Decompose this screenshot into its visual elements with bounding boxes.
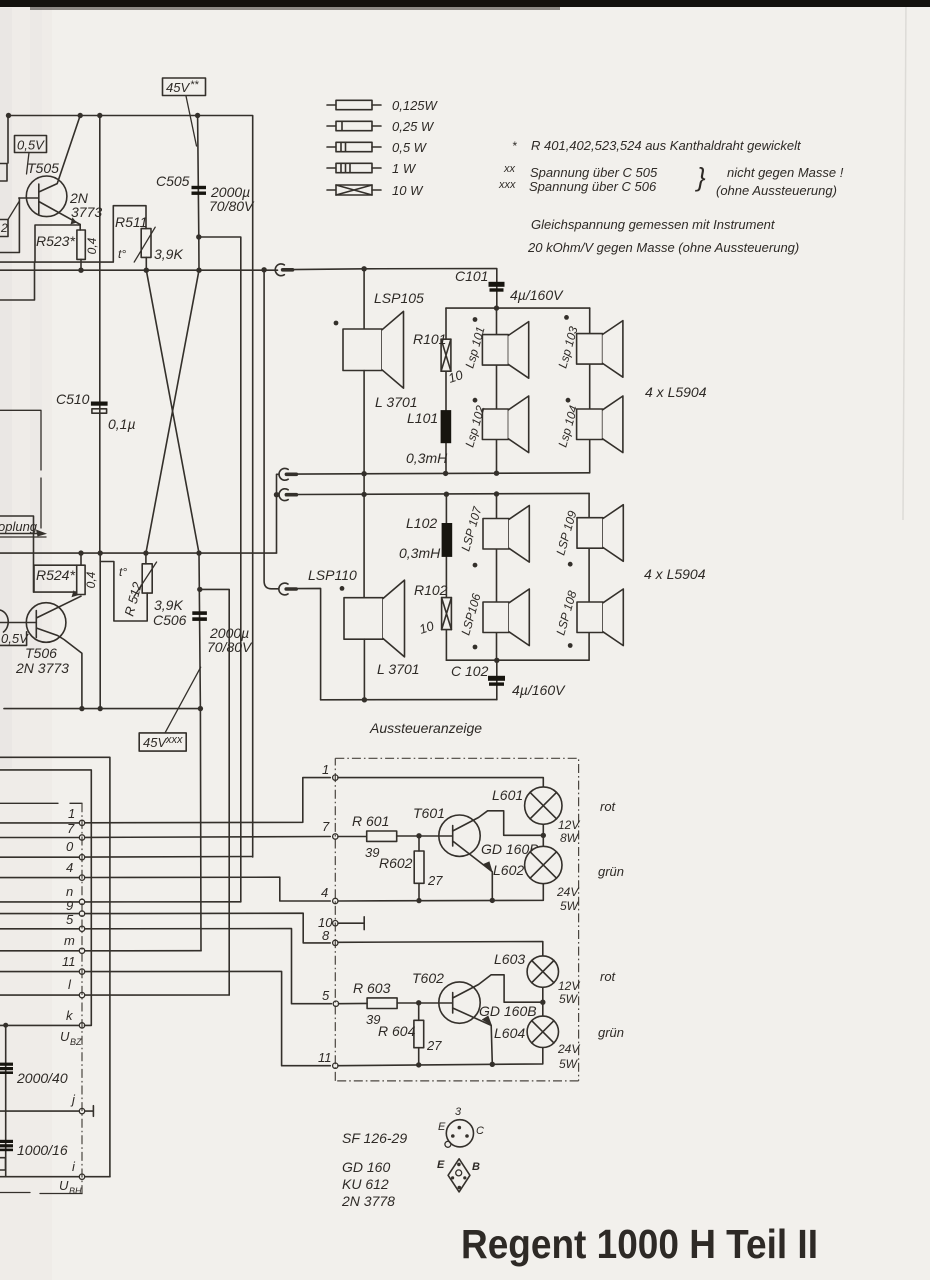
svg-text:2000/40: 2000/40 bbox=[16, 1070, 68, 1086]
svg-text:KU 612: KU 612 bbox=[342, 1176, 389, 1192]
svg-text:GD 160B: GD 160B bbox=[479, 1003, 537, 1019]
legend resistor 0,125W bbox=[327, 100, 381, 109]
svg-text:70/80V: 70/80V bbox=[209, 198, 255, 214]
node on top bus x=100 bbox=[97, 113, 102, 118]
node on top bus x=80 bbox=[78, 113, 83, 118]
node base/R604 bbox=[416, 1000, 421, 1005]
svg-text:R 604: R 604 bbox=[378, 1023, 416, 1039]
svg-text:LSP105: LSP105 bbox=[374, 290, 424, 306]
wire group1 center column x=496.5 bbox=[496, 308, 498, 473]
resistor R604 27 bbox=[418, 1003, 420, 1021]
row 4 bbox=[0, 877, 79, 879]
svg-text:0,5 W: 0,5 W bbox=[392, 140, 428, 155]
row i bbox=[0, 1176, 79, 1178]
leader 45V*** to C506 wire bbox=[165, 667, 201, 733]
resistor R523 0,4 bbox=[77, 230, 85, 259]
node rail2/LSP110 column bbox=[361, 492, 366, 497]
wire bottom rail unit1 bbox=[338, 884, 543, 901]
terminal 1 bbox=[333, 775, 338, 780]
svg-text:4µ/160V: 4µ/160V bbox=[510, 287, 564, 303]
svg-text:SF 126-29: SF 126-29 bbox=[342, 1130, 407, 1146]
svg-text:Spannung über C 506: Spannung über C 506 bbox=[529, 179, 657, 194]
row 1 bbox=[0, 822, 79, 824]
svg-text:2N 3773: 2N 3773 bbox=[15, 660, 69, 676]
node bracket/hook2 bbox=[274, 492, 279, 497]
terminal 7 bbox=[333, 834, 338, 839]
svg-text:0,5V: 0,5V bbox=[17, 138, 45, 153]
resistor R601 39 bbox=[367, 831, 397, 841]
node bus553/x100 column bbox=[98, 550, 103, 555]
speaker LSP107 bbox=[483, 506, 529, 563]
svg-text:R523*: R523* bbox=[36, 233, 75, 249]
svg-text:1000/16: 1000/16 bbox=[17, 1142, 68, 1158]
svg-text:xxx: xxx bbox=[498, 179, 516, 191]
speaker Lsp102 bbox=[482, 396, 528, 453]
svg-text:12V: 12V bbox=[558, 818, 580, 832]
lamp L604 gruen 24V 5W bbox=[542, 987, 544, 1016]
node between lamps bbox=[541, 833, 546, 838]
svg-text:xx: xx bbox=[503, 163, 516, 175]
wire group2 center column x=496.7 bbox=[496, 494, 498, 660]
svg-text:rot: rot bbox=[600, 799, 617, 814]
svg-text:3,9K: 3,9K bbox=[154, 597, 183, 613]
transistor T506 (2N 3773) bbox=[26, 603, 66, 643]
svg-text:BZ: BZ bbox=[70, 1037, 82, 1047]
node C506/row-l branch bbox=[197, 587, 202, 592]
svg-text:1 W: 1 W bbox=[392, 161, 417, 176]
svg-text:4: 4 bbox=[66, 860, 73, 875]
svg-text:L602: L602 bbox=[493, 862, 524, 878]
svg-text:7: 7 bbox=[67, 821, 75, 836]
svg-text:24V: 24V bbox=[556, 885, 579, 899]
svg-text:T506: T506 bbox=[25, 645, 57, 661]
node rail1/LSP105 bbox=[361, 471, 366, 476]
wire stub down from left end of top bus bbox=[7, 116, 9, 164]
svg-text:C506: C506 bbox=[153, 612, 187, 628]
node base/R602 bbox=[416, 833, 421, 838]
svg-text:2N 3778: 2N 3778 bbox=[341, 1193, 395, 1209]
svg-text:R 603: R 603 bbox=[353, 980, 391, 996]
svg-text:grün: grün bbox=[598, 1025, 624, 1040]
svg-text:R511: R511 bbox=[115, 214, 147, 230]
row j with end bar bbox=[0, 1110, 79, 1112]
speaker LSP110 (L3701) bbox=[344, 580, 405, 657]
wire branch from C505 node to x=240.5, corner down to connector row n bbox=[199, 237, 241, 902]
wire C505 column x=199 from top bus to bus270 bbox=[198, 116, 199, 271]
capacitor 1000/16 bbox=[0, 1140, 13, 1143]
lamp L601 rot 12V 5W bbox=[525, 787, 562, 824]
wire top supply bus y=115.5 with corner down at x=252.7 (runs to connector row 0) bbox=[8, 116, 253, 858]
speaker LSP106 bbox=[483, 589, 529, 646]
svg-text:Gleichspannung gemessen mit In: Gleichspannung gemessen mit Instrument bbox=[531, 217, 776, 232]
connector hook rail1 return bbox=[279, 468, 296, 480]
svg-text:B: B bbox=[472, 1161, 480, 1173]
svg-text:39: 39 bbox=[365, 845, 379, 860]
terminal 4 bbox=[333, 898, 338, 903]
svg-text:24V: 24V bbox=[557, 1042, 580, 1056]
svg-text:3: 3 bbox=[455, 1106, 462, 1118]
node bus553/R512 bbox=[143, 550, 148, 555]
svg-text:45V: 45V bbox=[166, 80, 190, 95]
svg-text:L 3701: L 3701 bbox=[377, 661, 420, 677]
svg-text:Spannung über C 505: Spannung über C 505 bbox=[530, 165, 658, 180]
svg-text:LSP110: LSP110 bbox=[308, 567, 357, 583]
svg-text:70/80V: 70/80V bbox=[207, 639, 253, 655]
wire group2 right column x=589.1 bbox=[588, 493, 590, 659]
node bus708/x100 bbox=[98, 706, 103, 711]
node rail2/L102 bbox=[444, 492, 449, 497]
wire diagonal R511-bottom to C506-top bbox=[146, 270, 199, 553]
svg-text:0,125W: 0,125W bbox=[392, 98, 439, 113]
svg-text:t°: t° bbox=[118, 247, 126, 261]
node rail2/emitter bbox=[490, 1062, 495, 1067]
svg-text:oplung: oplung bbox=[0, 519, 38, 534]
wire LSP105 bottom to rail1-bottom and on to LSP110 bbox=[363, 371, 365, 598]
capacitor C506 2000u 70/80V bbox=[199, 553, 200, 709]
svg-text:L101: L101 bbox=[407, 410, 438, 426]
svg-text:C505: C505 bbox=[156, 173, 190, 189]
rheostat R511 3,9K bbox=[141, 229, 151, 258]
svg-text:4µ/160V: 4µ/160V bbox=[512, 682, 566, 698]
svg-text:20 kOhm/V gegen Masse (ohne Au: 20 kOhm/V gegen Masse (ohne Aussteuerung… bbox=[527, 240, 799, 255]
svg-text:4 x L5904: 4 x L5904 bbox=[645, 384, 707, 400]
svg-text:L604: L604 bbox=[494, 1025, 525, 1041]
wire kopplung box bbox=[0, 516, 34, 592]
svg-text:3,9K: 3,9K bbox=[154, 246, 183, 262]
node C101/rail1 bbox=[494, 305, 499, 310]
svg-text:E: E bbox=[438, 1121, 446, 1133]
svg-text:U: U bbox=[59, 1178, 69, 1193]
legend resistor 0,5W bbox=[327, 142, 381, 151]
resistor R602 27 bbox=[418, 836, 420, 851]
row 9 bbox=[0, 913, 79, 915]
wire horizontal line1 y=262.1 from edge, corner up into R511 bracket bbox=[0, 206, 146, 262]
wire R524 label loop bbox=[34, 565, 77, 592]
top black page-edge bar bbox=[0, 0, 930, 7]
partial transistor at left edge bbox=[0, 610, 8, 632]
svg-text:27: 27 bbox=[427, 873, 443, 888]
resistor R603 39 bbox=[367, 998, 397, 1009]
pinout small-case transistor (SF126) bbox=[446, 1120, 473, 1147]
partial connector box at left page edge bbox=[0, 164, 7, 182]
dash-dot boundary of Aussteueranzeige unit bbox=[335, 758, 578, 1081]
node between lamps unit2 bbox=[540, 1000, 545, 1005]
svg-text:rot: rot bbox=[600, 969, 617, 984]
node rail/R602 bbox=[416, 898, 421, 903]
polarity dot Lsp103 bbox=[564, 315, 569, 320]
node bus553/C506 bbox=[196, 550, 201, 555]
svg-text:45V: 45V bbox=[143, 735, 167, 750]
svg-text:Regent 1000 H Teil II: Regent 1000 H Teil II bbox=[461, 1221, 818, 1267]
wire branch from C506 column to x=229.2 corner down to row l bbox=[200, 589, 229, 995]
svg-text:5W: 5W bbox=[559, 992, 579, 1006]
svg-text:3773: 3773 bbox=[71, 204, 102, 220]
wire group1 right column x=589.7 bbox=[589, 308, 591, 473]
terminal 8 bbox=[333, 940, 338, 945]
svg-text:R101: R101 bbox=[413, 331, 446, 347]
svg-text:C: C bbox=[476, 1125, 484, 1137]
svg-text:R524*: R524* bbox=[36, 567, 75, 583]
svg-text:E: E bbox=[437, 1159, 445, 1171]
svg-text:L603: L603 bbox=[494, 951, 525, 967]
wire group1 left column x=446 bbox=[445, 308, 447, 473]
svg-text:T505: T505 bbox=[27, 160, 59, 176]
svg-text:BH: BH bbox=[69, 1186, 82, 1196]
row 0 bbox=[0, 856, 79, 858]
label box 45V** bbox=[163, 78, 206, 96]
wire bus y=700 to C102 bottom bbox=[321, 699, 497, 701]
svg-text:10 W: 10 W bbox=[392, 183, 424, 198]
svg-text:0,5V: 0,5V bbox=[1, 631, 29, 646]
wire group1 bottom rail y=473 bbox=[297, 473, 590, 474]
leader 45V** to C505 wire bbox=[186, 96, 197, 146]
node C505/bus bbox=[196, 268, 201, 273]
svg-text:5: 5 bbox=[66, 912, 74, 927]
wire group2 left column x=446.6 bbox=[445, 494, 447, 660]
svg-text:8W: 8W bbox=[560, 831, 580, 845]
wire bus y=553 from left edge to hook bracket bbox=[0, 552, 277, 554]
svg-text:0,1µ: 0,1µ bbox=[108, 416, 136, 432]
capacitor C510 0,1u bbox=[91, 402, 108, 406]
svg-text:L102: L102 bbox=[406, 515, 437, 531]
svg-text:nicht gegen Masse !: nicht gegen Masse ! bbox=[727, 165, 844, 180]
wire x=264 from bus270 down, curving into LSP110 hook bbox=[264, 270, 278, 589]
row 5 bbox=[0, 928, 79, 930]
svg-text:0,3mH: 0,3mH bbox=[406, 450, 448, 466]
polarity dot LSP109 bbox=[568, 562, 573, 567]
thermistor R512 3,9K bbox=[145, 553, 147, 564]
wire R512 bottom bracket bbox=[100, 562, 147, 622]
polarity dot LSP110 bbox=[340, 586, 345, 591]
svg-text:L 3701: L 3701 bbox=[375, 394, 418, 410]
svg-text:R 401,402,523,524 aus Kanthal: R 401,402,523,524 aus Kanthaldraht gewic… bbox=[531, 138, 802, 153]
wire group1 top rail y=308.1 bbox=[446, 307, 590, 309]
wire terminal1 to L601 top bbox=[338, 778, 543, 787]
node bus270/x264 branch bbox=[261, 267, 266, 272]
wire C510 column x=99.8 from top bus to bus 553 bbox=[99, 116, 101, 554]
row 7 bbox=[0, 837, 79, 839]
row l bbox=[0, 994, 79, 996]
svg-text:m: m bbox=[64, 933, 75, 948]
svg-text:12V: 12V bbox=[558, 979, 580, 993]
svg-text:5W: 5W bbox=[559, 1057, 579, 1071]
wire R523 top node loop to left bbox=[35, 224, 80, 262]
resistor R101 10 (10W) bbox=[441, 339, 451, 371]
node cap column on row k bbox=[3, 1023, 8, 1028]
node C505 bottom branch bbox=[196, 234, 201, 239]
node rail1/speakers bbox=[494, 471, 499, 476]
speaker LSP105 (L3701) bbox=[363, 269, 365, 329]
dash-dot bottom border bbox=[0, 1193, 82, 1194]
polarity dot LSP105 bbox=[334, 321, 339, 326]
row m bbox=[0, 950, 79, 952]
wire small box below T505 at left edge bbox=[0, 262, 35, 300]
legend resistor 0,25W bbox=[327, 121, 381, 130]
polarity dot Lsp104 bbox=[566, 398, 571, 403]
lamp L602 gruen 24V 5W bbox=[542, 824, 544, 846]
terminal 10 with stub bbox=[333, 921, 338, 926]
speaker Lsp103 bbox=[577, 321, 623, 378]
capacitor C101 4u/160V bbox=[489, 282, 505, 287]
wire R511 bottom stub bbox=[145, 257, 147, 270]
svg-text:(ohne Aussteuerung): (ohne Aussteuerung) bbox=[716, 183, 837, 198]
svg-text:Aussteueranzeige: Aussteueranzeige bbox=[369, 720, 482, 736]
svg-text:t°: t° bbox=[119, 565, 127, 579]
svg-text:n: n bbox=[66, 884, 73, 899]
node on top bus x=8 bbox=[6, 113, 11, 118]
polarity dot Lsp101 bbox=[473, 317, 478, 322]
capacitor C102 4u/160V bbox=[496, 660, 498, 699]
svg-text:C 102: C 102 bbox=[451, 663, 489, 679]
label box 0,5V bbox=[15, 136, 47, 153]
speaker LSP109 bbox=[577, 505, 623, 562]
node LSP105 top feed bbox=[361, 266, 366, 271]
svg-text:5: 5 bbox=[322, 988, 330, 1003]
svg-text:0,25 W: 0,25 W bbox=[392, 119, 435, 134]
wire corner y=757.3 to x=110 vertical bbox=[0, 757, 110, 1176]
wire bus y=270.2 from left edge to connector bbox=[0, 269, 278, 271]
legend resistor 10W bbox=[327, 185, 381, 195]
svg-text:U: U bbox=[60, 1029, 70, 1044]
svg-text:C510: C510 bbox=[56, 391, 90, 407]
connector box 2 at left edge bbox=[0, 220, 8, 237]
svg-text:R602: R602 bbox=[379, 855, 413, 871]
node R511/bus bbox=[144, 268, 149, 273]
speaker Lsp101 bbox=[482, 322, 528, 379]
svg-text:C101: C101 bbox=[455, 268, 488, 284]
node R523/bus bbox=[78, 268, 83, 273]
lamp L603 rot 12V 5W bbox=[527, 956, 558, 987]
wire R601 to T601 base bbox=[397, 835, 453, 837]
terminal 11 bbox=[333, 1063, 338, 1068]
node LSP110 bottom / bus700 bbox=[362, 697, 367, 702]
row 11 bbox=[0, 971, 79, 973]
row k bbox=[0, 1024, 79, 1026]
svg-text:11: 11 bbox=[318, 1050, 332, 1065]
wire from hook down to bus700 bbox=[297, 588, 321, 699]
capacitor 2000/40 bbox=[0, 1063, 13, 1066]
svg-text:2: 2 bbox=[0, 221, 8, 235]
node on top bus x=197.6 bbox=[195, 113, 200, 118]
transistor T505 (2N 3773) bbox=[26, 176, 67, 217]
label box 0,5V (T506) bbox=[0, 632, 27, 646]
svg-text:1: 1 bbox=[68, 806, 75, 821]
inductor L102 0,3mH bbox=[442, 523, 453, 557]
wire R523 bottom stub down to bus bbox=[80, 259, 82, 270]
svg-text:27: 27 bbox=[426, 1038, 442, 1053]
wire bracket joining hook1/hook2 to bus553 bbox=[277, 474, 280, 553]
speaker LSP108 bbox=[577, 589, 623, 646]
svg-text:0: 0 bbox=[66, 839, 74, 854]
wire terminal5 to R603 bbox=[339, 1002, 368, 1004]
terminal 5 bbox=[333, 1001, 338, 1006]
node rail2bottom/C102 bbox=[494, 658, 499, 663]
polarity dot LSP108 bbox=[568, 643, 573, 648]
wire group2 bottom rail y=660 bbox=[446, 659, 589, 661]
wire corner y=769.9 to x=91.3 vertical down to row k bbox=[0, 770, 91, 1026]
svg-text:7: 7 bbox=[322, 819, 330, 834]
speaker Lsp104 bbox=[577, 396, 623, 453]
resistor R524 0,4 bbox=[80, 553, 82, 565]
svg-text:0,3mH: 0,3mH bbox=[399, 545, 441, 561]
node bus708/T506 collector bbox=[79, 706, 84, 711]
wire bottom rail unit2 bbox=[338, 1048, 543, 1066]
svg-text:GD 160: GD 160 bbox=[342, 1159, 390, 1175]
svg-text:9: 9 bbox=[66, 898, 73, 913]
inductor L101 0,3mH bbox=[441, 410, 452, 443]
node bus708/C506 bbox=[198, 706, 203, 711]
svg-text:4: 4 bbox=[321, 885, 328, 900]
legend resistor 1W bbox=[327, 163, 381, 172]
wire C506 column continues to row m bbox=[199, 709, 202, 951]
svg-text:11: 11 bbox=[62, 954, 76, 969]
wire bus y=708.6 bbox=[4, 708, 200, 710]
polarity dot LSP107 bbox=[473, 563, 478, 568]
svg-text:L601: L601 bbox=[492, 787, 523, 803]
svg-text:R102: R102 bbox=[414, 582, 448, 598]
svg-text:1: 1 bbox=[322, 762, 329, 777]
wire R603 to T602 base bbox=[397, 1002, 453, 1004]
capacitor C505 2000u 70/80V bbox=[192, 186, 207, 189]
svg-text:xxx: xxx bbox=[165, 734, 183, 746]
wire diagonal C505-bottom to R512-top bbox=[146, 270, 199, 553]
svg-text:5W: 5W bbox=[560, 899, 580, 913]
pinout power transistor (GD160/2N3778) bbox=[448, 1159, 470, 1192]
connector hook LSP110 feed bbox=[279, 583, 296, 595]
wire group2 top rail y=494.3 bbox=[297, 493, 590, 494]
node rail2/speakers bbox=[494, 491, 499, 496]
connector hook rail2 feed bbox=[279, 489, 296, 501]
leader from 0,5V box to T505 bbox=[27, 153, 30, 175]
svg-text:R 601: R 601 bbox=[352, 813, 389, 829]
polarity dot LSP106 bbox=[473, 645, 478, 650]
label box 45V*** bbox=[139, 733, 186, 751]
wire bus270 continuing right to C101 column, corner down bbox=[291, 269, 497, 309]
node rail/emitter bbox=[490, 898, 495, 903]
svg-text:8: 8 bbox=[322, 928, 330, 943]
wire from box 2 to base corner bbox=[8, 201, 19, 220]
wire frame around kopplung area bbox=[0, 410, 41, 470]
svg-text:T601: T601 bbox=[413, 805, 445, 821]
wire terminal8 to L603 top bbox=[338, 942, 543, 957]
node bus553/R524 column bbox=[78, 550, 83, 555]
svg-text:0,4: 0,4 bbox=[84, 571, 98, 588]
wire x=100 column bus553 to bus708 bbox=[99, 553, 101, 709]
svg-text:T602: T602 bbox=[412, 970, 444, 986]
wire electrolytic column x=5.7 bbox=[5, 1025, 7, 1177]
wire T505 base lead corner to left edge bbox=[0, 198, 19, 253]
svg-text:**: ** bbox=[190, 79, 199, 91]
transistor T601 GD160B bbox=[439, 815, 480, 856]
wire terminal7 to R601 bbox=[338, 836, 367, 838]
polarity dot Lsp102 bbox=[473, 398, 478, 403]
svg-text:grün: grün bbox=[598, 864, 624, 879]
svg-text:*: * bbox=[512, 139, 517, 153]
resistor R102 10 (10W) bbox=[442, 598, 452, 630]
dash-dot connector strip line bbox=[0, 802, 58, 804]
svg-text:0,4: 0,4 bbox=[85, 237, 99, 254]
node rail2/R604 bbox=[416, 1062, 421, 1067]
svg-text:4 x L5904: 4 x L5904 bbox=[644, 566, 706, 582]
partial connector box at left edge bbox=[0, 1158, 6, 1170]
connector hook on bus270 bbox=[275, 264, 292, 276]
row n bbox=[0, 901, 79, 903]
node rail1/L101 bbox=[443, 471, 448, 476]
transistor T602 GD160B bbox=[439, 982, 480, 1023]
